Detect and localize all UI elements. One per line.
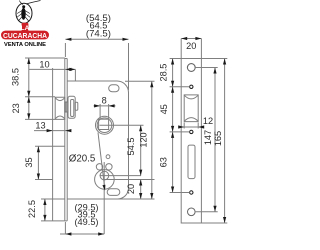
plate key slot <box>188 145 195 179</box>
svg-text:13: 13 <box>35 120 45 130</box>
dimension 8 <box>94 96 116 119</box>
latch mechanism <box>65 96 78 118</box>
lock case outline <box>67 81 128 199</box>
svg-text:20: 20 <box>126 184 136 194</box>
latch extended projection line <box>52 68 54 221</box>
svg-text:38.5: 38.5 <box>11 68 21 86</box>
svg-text:28.5: 28.5 <box>159 64 169 82</box>
dimension 10 <box>29 59 75 81</box>
svg-text:CUCARACHA: CUCARACHA <box>3 33 47 40</box>
svg-text:(74.5): (74.5) <box>86 28 111 38</box>
front plate outline <box>181 59 201 224</box>
faceplate side view <box>65 59 67 221</box>
dimension 28.5 45 63 chain <box>159 59 190 193</box>
dimension 20 plate width <box>181 37 201 59</box>
svg-text:10: 10 <box>39 59 49 69</box>
svg-text:(49.5): (49.5) <box>75 217 99 227</box>
svg-text:23: 23 <box>11 103 21 113</box>
svg-text:VENTA ONLINE: VENTA ONLINE <box>4 42 46 48</box>
label Ø20.5 with leader <box>69 133 106 191</box>
svg-text:8: 8 <box>102 96 107 106</box>
plate small hole C <box>190 191 193 194</box>
plate top screw hole <box>187 64 195 72</box>
dimension 120 <box>117 81 155 199</box>
latch bolt <box>55 97 65 119</box>
svg-text:120: 120 <box>139 132 149 147</box>
logo LA box <box>21 23 30 32</box>
dimension 147 <box>196 68 218 212</box>
plate latch cutout <box>184 95 198 122</box>
case bottom slot <box>107 189 120 196</box>
dimension 38.5 and 23 chain <box>11 58 65 119</box>
svg-text:147: 147 <box>203 130 213 145</box>
svg-text:165: 165 <box>213 131 223 146</box>
svg-text:63: 63 <box>159 157 169 167</box>
svg-text:35: 35 <box>24 157 34 167</box>
keyhole circle <box>95 155 141 189</box>
plate bottom screw hole <box>188 208 196 216</box>
svg-text:Ø20.5: Ø20.5 <box>69 153 96 165</box>
dimension 54.5 and 20 right chain <box>104 125 154 199</box>
svg-text:45: 45 <box>159 104 169 114</box>
case top slot <box>109 85 119 92</box>
plate small hole A <box>190 85 193 88</box>
follower hub <box>96 116 144 134</box>
dimension 22.5 <box>27 199 65 221</box>
dimension top 54.5 64.5 74.5 <box>65 13 128 90</box>
svg-text:20: 20 <box>186 41 196 51</box>
logo cockroach oval <box>16 1 41 24</box>
svg-text:54.5: 54.5 <box>126 138 136 156</box>
dimension 12 slot width <box>178 116 213 129</box>
dimension 165 <box>201 59 227 224</box>
svg-text:22.5: 22.5 <box>27 200 37 218</box>
dimension bottom 29.5 39.5 49.5 <box>60 203 104 236</box>
dimension 35 <box>24 146 65 179</box>
logo CUCARACHA banner <box>1 31 49 40</box>
svg-text:12: 12 <box>203 116 213 126</box>
keyhole centerline <box>103 162 105 234</box>
dimension 13 <box>34 120 71 132</box>
plate small hole B <box>190 130 193 133</box>
